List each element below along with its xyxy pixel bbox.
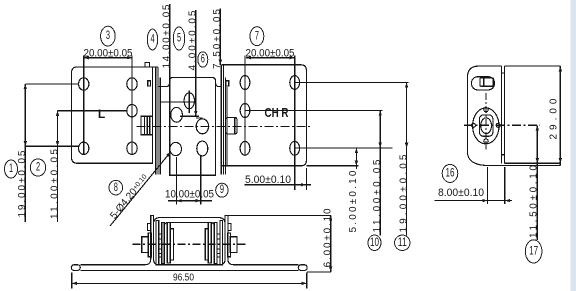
right strip lines (220, 65, 222, 175)
balloon 17 (525, 240, 542, 263)
left hatched spacer (159, 234, 162, 257)
svg-text:CH R: CH R (265, 105, 289, 120)
svg-text:96.50: 96.50 (173, 272, 194, 283)
dim 8.00 line (435, 200, 513, 202)
arrow 96.50 left (72, 282, 77, 285)
right disc 3 (208, 223, 211, 264)
svg-text:9: 9 (220, 184, 224, 197)
right plate hole r2c1 (240, 104, 250, 118)
arrow dim3 right (127, 56, 132, 59)
svg-text:2: 2 (36, 161, 40, 174)
bottom bar top edges (80, 264, 145, 266)
center plate outline (170, 80, 216, 176)
side view small hole bottom (484, 139, 488, 143)
hat outer top (154, 218, 226, 224)
mini dim line 4.00 (196, 117, 203, 119)
svg-text:11: 11 (398, 237, 407, 249)
left ext line row3 (25, 145, 78, 147)
side view right edge double (501, 66, 503, 163)
side view inner rounded rect (479, 115, 493, 136)
dim 20.00 top-right line (246, 57, 295, 59)
svg-text:11.50±0.10: 11.50±0.10 (528, 165, 539, 238)
side view small hole top (484, 108, 488, 112)
svg-text:11.00±0.05: 11.00±0.05 (372, 159, 383, 232)
left disc 3 (167, 223, 170, 264)
left disc 2 (162, 223, 165, 264)
arrow 19.00 bottom (24, 141, 27, 146)
balloon 2 (30, 159, 45, 176)
balloon 1 (5, 160, 18, 178)
scrollbar strip right edge (571, 0, 576, 291)
right wall stub (228, 224, 231, 231)
96.50 ext lines (71, 273, 73, 289)
svg-text:8.00±0.10: 8.00±0.10 (438, 187, 484, 199)
side view horizontal centerline (464, 124, 540, 126)
dim line 11.00 vertical (379, 111, 381, 236)
center plate lower-left hole (170, 142, 182, 155)
left wall stub (148, 224, 151, 231)
arrow 11.00v bottom (379, 143, 382, 148)
right hatched spacer (217, 234, 220, 257)
arrow 19.00v top (405, 83, 408, 88)
left plate hole r3c2 (127, 142, 137, 154)
center plate lower-right hole (197, 141, 208, 156)
arrow 10.00 left (177, 199, 182, 202)
dim 8.00 ext lines (487, 167, 489, 204)
svg-text:1: 1 (9, 162, 13, 175)
arrow 6.00 bottom (329, 267, 332, 272)
balloon 7 (250, 27, 264, 46)
center plate right shoulder (215, 82, 222, 87)
bottom bar left cap (71, 265, 80, 271)
dim line 5.00 vertical (355, 148, 357, 169)
svg-text:6: 6 (201, 53, 205, 66)
right plate hole r1c1 (240, 76, 250, 90)
left plate top tab (145, 63, 150, 67)
svg-text:5.00±0.10: 5.00±0.10 (348, 170, 359, 232)
svg-text:7: 7 (255, 30, 259, 43)
balloon 10 (368, 235, 381, 250)
center plate top hole (184, 93, 194, 109)
arrow dim7 right (290, 56, 295, 59)
side view small hole left (471, 123, 475, 127)
center plate right hole (196, 119, 208, 134)
hat inner top (164, 223, 214, 230)
5.00 ext lines (294, 156, 296, 190)
side view slot inner (480, 78, 493, 86)
bottom view centerline (133, 243, 247, 245)
dim 11.50 line (536, 125, 538, 240)
10.00 dim line (168, 200, 212, 202)
ext line left hole row (180, 115, 199, 117)
balloon 11 (395, 235, 410, 250)
left plate hole r1c1 (79, 78, 89, 90)
arrow 11.00v top (379, 111, 382, 116)
balloon 6 (198, 52, 208, 67)
svg-text:10: 10 (370, 237, 379, 249)
right disc 1 (220, 221, 223, 266)
10.00 ext lines (176, 157, 178, 204)
arrow 5.00v bottom (355, 161, 358, 166)
right ext row2 (245, 110, 382, 112)
svg-text:11.00±0.05: 11.00±0.05 (49, 149, 60, 219)
arrow 11.00 top (56, 111, 59, 116)
balloon 4 (147, 29, 157, 50)
bottom bar bottom edge (80, 269, 298, 271)
svg-text:5: 5 (177, 32, 181, 45)
96.50 dim line (72, 282, 307, 284)
svg-text:4: 4 (150, 33, 154, 46)
svg-text:17: 17 (529, 245, 538, 257)
left plate hole r3c1 (79, 142, 89, 154)
svg-text:20.00±0.05: 20.00±0.05 (84, 47, 133, 59)
left roller bolt head (142, 237, 149, 253)
left dim line 19.00 (24, 84, 26, 222)
arrow 6.00 top (329, 216, 332, 221)
main centerline (137, 126, 312, 128)
left disc 1 (156, 221, 159, 266)
left disc 4 (170, 229, 173, 260)
right wall (220, 216, 234, 265)
svg-text:14.00±0.05: 14.00±0.05 (162, 4, 173, 68)
side view inner ellipse (481, 118, 492, 134)
arrow 4.00 bottom (194, 111, 197, 116)
6.00 ext line top (228, 215, 331, 217)
left ext line row1 (25, 83, 78, 85)
right disc 4 (205, 229, 208, 260)
svg-text:19.00±0.05: 19.00±0.05 (17, 150, 28, 217)
arrow 29.00 bottom (559, 158, 562, 163)
right ext bottom (306, 165, 358, 167)
svg-text:7.50±0.05: 7.50±0.05 (212, 9, 223, 69)
left plate hole r1c2 (127, 78, 137, 90)
side view slot outer (472, 77, 495, 90)
arrow 29.00 top (559, 66, 562, 71)
center plate left shoulder (157, 82, 169, 87)
right disc 2 (214, 223, 217, 264)
arrow 11.50 bottom (536, 158, 539, 163)
arrow dim3 left (84, 56, 89, 59)
svg-text:L: L (98, 107, 105, 121)
right bend line (226, 87, 228, 118)
svg-text:16: 16 (446, 167, 455, 179)
right roller washer (227, 233, 230, 257)
arrow 11.00 bottom (56, 141, 59, 146)
6.00 ext line bottom (307, 271, 331, 273)
left plate outline (72, 67, 159, 163)
arrow 10.00 right (196, 199, 201, 202)
side view boss ellipse (473, 108, 499, 144)
right bolt head (227, 117, 237, 134)
arrow 19.00 top (24, 84, 27, 89)
right plate hole r1c2 (290, 76, 300, 90)
arrow leader (166, 151, 172, 157)
svg-text:8: 8 (114, 181, 118, 194)
top dim line 14.00 (169, 4, 171, 81)
arrow 19.00v bottom (405, 143, 408, 148)
left plate hole r2c2 (127, 105, 137, 117)
svg-text:3: 3 (106, 29, 110, 42)
balloon 8 (109, 180, 123, 195)
line through top hole (188, 91, 190, 114)
right plate col line 1 (244, 56, 246, 157)
arrow dim7 left (246, 56, 251, 59)
left wall (145, 216, 159, 265)
left strip lines (155, 67, 157, 175)
balloon 5 (173, 27, 184, 50)
side view small hole right (496, 123, 500, 127)
side view foot lines (489, 165, 561, 167)
arrow 7.50 bottom (219, 60, 222, 65)
left clip rect (148, 81, 151, 86)
bottom bar right cap (298, 265, 307, 271)
left plate col line 1 (83, 56, 85, 155)
side view top edge extension (505, 65, 561, 67)
right ext row3 (295, 147, 393, 149)
svg-text:20.00±0.05: 20.00±0.05 (246, 47, 295, 59)
arrow 5.00h (301, 183, 306, 186)
svg-text:10.00±0.05: 10.00±0.05 (165, 189, 214, 201)
balloon 9 (216, 183, 228, 197)
dim 29.00 line (559, 66, 561, 163)
arrow 11.50 top (536, 125, 539, 130)
ext line through top hole (161, 101, 196, 103)
arrow 8.00 right (505, 199, 510, 202)
svg-text:6.00±0.10: 6.00±0.10 (322, 208, 333, 267)
right ext row1 (295, 82, 409, 84)
6.00 dim line (330, 216, 332, 272)
right roller bolt head (230, 237, 237, 253)
right plate col line 2 (294, 56, 296, 191)
side view vertical centerline (485, 93, 487, 150)
side view plate outline (467, 66, 501, 165)
balloon 16 (442, 164, 458, 182)
left plate col line 2 (131, 56, 133, 155)
dim 20.00 top-left line (84, 57, 132, 59)
left ext line row2 (58, 110, 127, 112)
right plate hole r3c1 (240, 141, 250, 155)
dim line 19.00 vertical (406, 83, 408, 236)
top dim line 4.00 (195, 10, 197, 116)
svg-text:5.00±0.10: 5.00±0.10 (245, 174, 291, 186)
diagonal leader (110, 152, 171, 226)
arrow 5.00v top (355, 148, 358, 153)
left bolt head (141, 116, 153, 135)
svg-text:4.00±0.05: 4.00±0.05 (188, 10, 199, 70)
left roller washer (148, 233, 151, 257)
left dim line 11.00 (57, 111, 59, 222)
center plate left hole (171, 107, 183, 122)
arrow 96.50 right (302, 282, 307, 285)
arrow 8.00 left (482, 199, 487, 202)
right plate hole r3c2 (290, 141, 300, 155)
right clip rect (226, 81, 229, 86)
top dim line 7.50 (219, 9, 221, 65)
5.00 horizontal dim underline (245, 184, 312, 186)
right plate outline (221, 65, 306, 166)
balloon 3 (101, 26, 116, 46)
